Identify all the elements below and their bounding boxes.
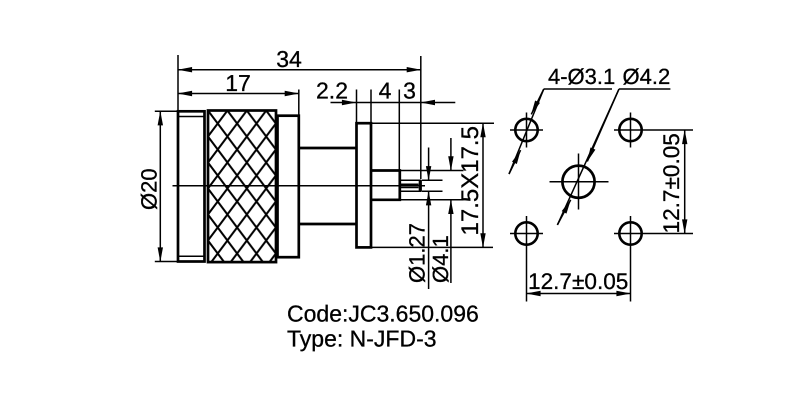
leader 4-dia3.1 shoulder (544, 88, 612, 90)
pin outline (400, 180, 421, 191)
knurl section (208, 111, 276, 263)
svg-text:12.7±0.05: 12.7±0.05 (528, 269, 628, 294)
extension line top (155, 110, 178, 112)
leader 4-dia3.1 upper arrow (531, 89, 544, 114)
extension line bottom (155, 261, 178, 263)
barrel bottom (299, 223, 357, 226)
pin extension lines right (422, 180, 443, 191)
svg-text:Ø20: Ø20 (137, 168, 162, 210)
extension line right (pin tip, for 34 and 3) (420, 56, 422, 179)
dim dia1.27 arrows (428, 148, 430, 181)
leader dia4.2 lower arrow (557, 200, 570, 225)
flange bottom extension line (371, 246, 493, 248)
dim 17 line (178, 93, 299, 95)
dim 34 line (178, 69, 421, 71)
chamfer line bottom (178, 255, 205, 257)
dim 17.5x17.5 line (482, 123, 484, 247)
rear tube (371, 171, 400, 200)
flange plate (357, 123, 372, 247)
svg-text:34: 34 (276, 46, 302, 72)
extension line flange right (370, 90, 372, 124)
svg-text:2.2: 2.2 (316, 78, 348, 104)
hole bottom-right (614, 216, 693, 302)
chamfer line top (178, 116, 205, 118)
dim 12.7 bottom line (527, 293, 631, 295)
svg-text:Ø4.2: Ø4.2 (623, 64, 671, 89)
dim dia4.1 arrows (450, 138, 452, 170)
coupling nut front cap (178, 111, 205, 261)
svg-text:17.5X17.5: 17.5X17.5 (457, 126, 484, 235)
tube extension lines right (401, 171, 464, 200)
flange top extension line (371, 122, 494, 124)
svg-text:12.7±0.05: 12.7±0.05 (659, 133, 684, 233)
hole top-right (614, 113, 693, 148)
dim 12.7 vertical line (684, 130, 686, 234)
svg-text:Ø1.27: Ø1.27 (404, 223, 429, 283)
hole top-left (510, 113, 543, 148)
pin slot lines (400, 184, 419, 187)
leader 4-dia3.1 lower arrow (509, 150, 521, 174)
leader 4-dia3.1 line through hole (509, 89, 544, 174)
pin end bar (419, 180, 422, 192)
svg-text:4-Ø3.1: 4-Ø3.1 (548, 64, 615, 89)
svg-text:3: 3 (403, 78, 416, 104)
extension line nut rear edge (for 17) (298, 90, 300, 116)
hole bottom-left (510, 216, 543, 302)
hole center dia4.2 (550, 154, 609, 210)
dim dia20 line (159, 111, 161, 261)
extension line left (front face) (177, 55, 179, 111)
leader dia4.2 line through hole (557, 89, 619, 225)
centerline (173, 185, 426, 187)
svg-text:Type: N-JFD-3: Type: N-JFD-3 (287, 326, 437, 352)
svg-text:4: 4 (379, 78, 392, 104)
svg-text:17: 17 (225, 70, 251, 96)
dim 2.2/4/3 chain line (331, 102, 357, 104)
coupling nut rear cap (278, 116, 299, 258)
leader dia4.2 upper arrow (587, 89, 619, 162)
barrel top (299, 147, 357, 150)
svg-text:Code:JC3.650.096: Code:JC3.650.096 (287, 301, 479, 327)
extension line flange left (356, 90, 358, 124)
extension line tube right (398, 90, 400, 171)
leader dia4.2 shoulder (619, 88, 670, 90)
svg-text:Ø4.1: Ø4.1 (428, 235, 453, 283)
